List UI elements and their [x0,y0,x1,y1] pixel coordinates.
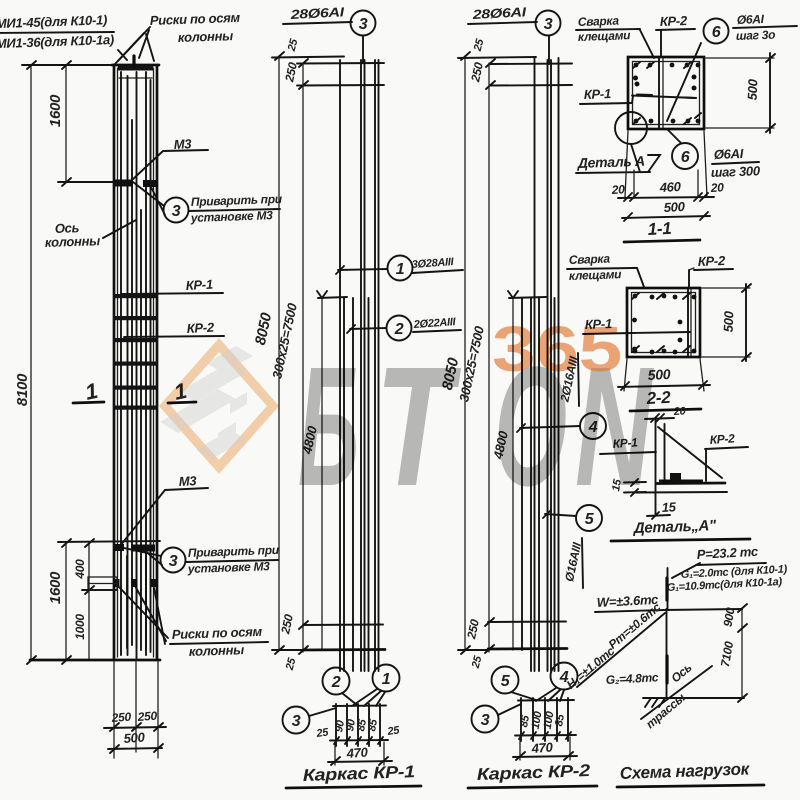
circle 3 bottom [161,548,186,573]
bottom dim extensions [624,359,704,391]
leader [668,130,681,143]
svg-text:500: 500 [663,199,686,215]
column bottom line [30,659,160,662]
P arrow [667,568,669,609]
leader M3 [132,151,163,180]
stirrup inner [632,293,696,353]
circle 2 [387,316,412,341]
M3 embed marks top [113,180,133,187]
leaders circle3 top [133,182,164,206]
svg-text:Риски по осям: Риски по осям [150,10,241,28]
leader KR-2 down [705,449,707,481]
rebar dots [632,294,696,355]
circle 3 [536,11,561,36]
short bar 3 [554,298,556,671]
svg-text:1000: 1000 [73,614,87,640]
svg-text:500: 500 [123,730,146,746]
svg-text:G₂=4.8тс: G₂=4.8тс [605,670,659,687]
long bar 1 [339,60,341,671]
bottom dim extensions [625,131,707,197]
short bar 2 [538,298,540,671]
svg-text:шаг 300: шаг 300 [711,163,761,180]
svg-text:колонны: колонны [189,642,245,659]
G2 arrow shaft [665,656,668,683]
leader KR-2 [688,270,690,288]
svg-text:3: 3 [481,712,490,729]
long bar 5 [378,60,380,671]
svg-text:5: 5 [501,673,511,690]
rebar verticals [120,72,122,655]
cage plane lines [687,289,689,356]
dim 4800 [512,298,514,650]
column top cap [112,64,159,67]
long bar 1 [534,58,536,671]
stirrup band 4 [113,362,158,366]
pyramid right slope [146,34,154,61]
long bar 3 [364,60,366,671]
circle 2 footer [323,668,350,695]
leaders footer [342,693,357,705]
leader svarka [634,268,644,287]
svg-text:Каркас КР-1: Каркас КР-1 [302,762,415,785]
leader riski 2 [139,30,149,58]
extension at y590 [82,589,117,591]
shelf bracket [659,480,703,485]
wire circle3 down [548,36,550,64]
cage bottom bars [488,621,566,624]
svg-text:28Ø6АI: 28Ø6АI [289,4,345,22]
svg-text:1: 1 [396,261,405,278]
lifting loop [132,56,135,67]
circle 5 [576,505,602,531]
svg-text:3: 3 [172,203,181,220]
bar tick marks [632,293,690,352]
circle 1 footer [373,665,400,692]
dim 500 [108,748,162,749]
svg-text:установке М3: установке М3 [187,559,271,576]
svg-text:365: 365 [492,313,622,385]
dim line 1600 top [65,65,67,182]
gusset triangle [658,427,722,478]
svg-text:КР-1: КР-1 [584,86,612,102]
svg-text:КР-2: КР-2 [660,13,689,29]
svg-text:Ø6АI: Ø6АI [714,146,744,162]
dim 20 460 20 [618,197,714,198]
svg-text:3: 3 [292,713,301,730]
svg-text:3: 3 [169,553,178,570]
logo diamond ring [159,338,279,474]
leader МИ1 to column top [118,50,127,60]
leader circle2 [350,328,386,329]
svg-text:шаг 3о: шаг 3о [736,28,776,43]
stirrup band 6 [113,406,158,410]
leader os [103,220,136,238]
svg-text:28Ø6АI: 28Ø6АI [471,4,527,22]
bottom risk marks [113,544,124,551]
svg-text:Б: Б [298,332,359,522]
svg-text:6: 6 [712,24,721,41]
ground hatch [643,698,666,707]
dim 4800 [321,298,323,650]
bar tick slashes [334,737,383,744]
svg-text:Т: Т [375,332,461,522]
risk plate left [88,577,117,590]
long bar 4 [374,60,376,671]
circle 4 [580,413,606,439]
svg-text:20: 20 [610,182,625,197]
extension at y182 [58,181,113,183]
cage plane lines [658,58,660,128]
dim 500 right [745,284,747,361]
svg-text:Ø6АI: Ø6АI [737,12,765,27]
dim 500 right [769,53,771,133]
frame top [663,609,742,610]
svg-text:400: 400 [73,559,87,580]
svg-text:250: 250 [136,709,158,724]
bar tick marks [633,62,701,124]
bar line inside [632,332,690,333]
column right edge [156,65,159,660]
detail circle A [615,112,647,144]
stirrup band 5 [113,386,158,390]
circle 3 top [164,198,189,223]
svg-text:КР-2: КР-2 [698,253,727,269]
KR-1 leader [121,293,223,294]
svg-text:470: 470 [345,745,369,762]
right dim [741,608,743,698]
leader svarka [640,30,654,58]
column face lines [655,420,657,514]
right dim extensions [706,58,774,128]
svg-text:клещами: клещами [578,28,632,44]
bottom dim extensions [113,662,115,758]
wire circle3 down [362,36,364,63]
bar tick slashes [519,732,571,739]
svg-text:8100: 8100 [14,373,31,406]
cage top bar [458,57,536,58]
circle 4 footer [551,663,578,690]
circle 3 footer [472,706,499,733]
stirrup band 2 [113,316,158,320]
dim line 1600 bottom [65,543,67,660]
svg-text:Сварка: Сварка [578,14,620,29]
svg-text:Каркас КР-2: Каркас КР-2 [476,761,591,784]
svg-text:3: 3 [544,16,553,33]
long bar 2 [360,60,362,671]
cage top bar [272,57,344,58]
logo iso slabs [160,346,253,459]
svg-text:500: 500 [721,310,737,332]
svg-text:250: 250 [110,710,132,725]
svg-text:460: 460 [658,179,682,195]
svg-text:колонны: колонны [45,233,101,250]
svg-text:Риски по осям: Риски по осям [172,624,263,642]
svg-text:500: 500 [745,78,761,100]
svg-text:1: 1 [382,671,391,688]
svg-text:1-1: 1-1 [647,219,672,239]
leader KR-2 [660,30,662,57]
dim 8050 line [278,56,280,650]
pyramid left slope [115,33,144,64]
svg-text:колонны: колонны [178,28,234,45]
axis diagonal [641,666,712,719]
long bar 3 [550,60,552,671]
extension at y543 [58,541,160,542]
svg-text:КР-1: КР-1 [185,277,213,293]
short bar 3 [368,298,370,671]
svg-text:КР-2: КР-2 [186,320,215,336]
svg-text:6: 6 [681,149,690,166]
circle 6 top [704,19,729,44]
cage bottom bars [303,624,383,627]
svg-text:15: 15 [661,499,677,515]
long bar 2 [547,60,549,671]
svg-text:Сварка: Сварка [569,252,611,267]
right dim extensions [702,288,750,357]
frame bottom [666,697,744,699]
bolt blob [670,473,681,482]
dim 8050 line [464,56,466,650]
leader circle6 diagonal [667,43,701,121]
dim 250/250 [104,727,166,728]
bar line inside [632,96,696,99]
svg-text:клещами: клещами [569,267,623,283]
dark bars lower zone [136,558,138,648]
rebar dots [633,63,700,124]
short bar 2 [352,298,354,671]
KR-2 leader [124,336,224,337]
leader P [672,563,700,578]
svg-text:КР-2: КР-2 [709,431,735,447]
leader circle5 [545,514,576,516]
circle 1 [388,256,413,281]
leaders footer [511,692,536,700]
risk dashes [114,579,120,587]
svg-text:3: 3 [359,16,368,33]
frame column [666,609,668,698]
dim line 8100 [30,65,32,660]
svg-text:20: 20 [673,405,687,418]
dim line 1000 [88,590,90,660]
section square outer [628,57,704,129]
top extension line [22,64,113,66]
pennant [648,155,660,172]
watermark letters BTON [298,332,654,522]
left ext line [302,63,304,652]
short bar 1 [530,298,532,671]
stirrup band 3 [113,338,158,342]
svg-text:2: 2 [331,674,341,691]
circle 3 [351,11,376,36]
svg-text:М3: М3 [178,473,197,489]
diagonal brace load [577,613,665,687]
circle 6 bottom [672,143,698,169]
circle 3 footer [283,707,310,734]
svg-text:установке М3: установке М3 [190,208,274,225]
underline [0,32,114,33]
section square outer [627,288,700,357]
stirrup band 1 [113,294,158,298]
svg-text:470: 470 [530,740,554,757]
dim line 400 [88,543,90,590]
leaders circle3 bottom [124,548,161,556]
plan detail KR-2 [518,699,574,702]
short bar 1 [343,298,345,671]
leaders riski bottom [118,586,168,638]
leader riski 1 [118,27,150,61]
long bar 5 [521,298,523,650]
svg-text:1600: 1600 [47,571,64,604]
circle 5 footer [492,667,519,694]
plan detail KR-1 [333,705,386,708]
left ext line [488,63,490,652]
leader circle4 [520,426,580,428]
column left edge [113,65,116,660]
long bar 4 [558,58,560,671]
leader circle1 [338,269,387,270]
svg-text:1600: 1600 [47,94,64,127]
stirrup inner [633,62,700,125]
svg-text:20: 20 [709,180,724,195]
